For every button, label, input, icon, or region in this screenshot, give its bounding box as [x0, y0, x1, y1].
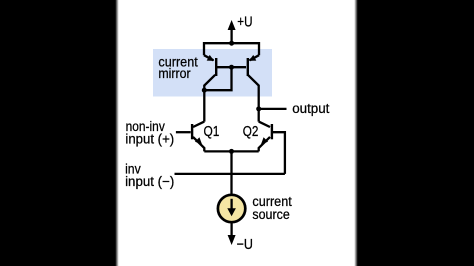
svg-text:output: output [292, 101, 329, 116]
svg-text:Q1: Q1 [204, 124, 220, 140]
svg-text:input (+): input (+) [125, 132, 174, 147]
svg-text:−U: −U [237, 237, 253, 253]
svg-text:source: source [252, 207, 289, 222]
svg-text:input (−): input (−) [125, 174, 174, 189]
svg-text:+U: +U [237, 14, 252, 30]
svg-text:mirror: mirror [158, 66, 191, 81]
svg-text:Q2: Q2 [243, 124, 259, 140]
